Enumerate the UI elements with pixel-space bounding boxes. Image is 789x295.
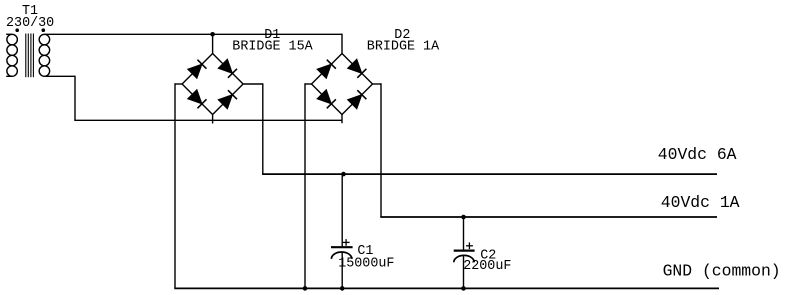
svg-text:40Vdc 6A: 40Vdc 6A [658, 145, 737, 164]
C1 positive plate [331, 246, 353, 248]
T1 core [25, 34, 27, 78]
wire: D2 bottom pin [341, 115, 343, 124]
junction dot: D2 negative on ground bus [303, 286, 308, 291]
D1 diode upper-right (anode top node, cathode right node) [217, 58, 233, 74]
C1 bottom lead to ground bus [341, 252, 343, 288]
wire: secondary bottom lead right [44, 75, 75, 77]
wire: D2 right pin stub [373, 83, 382, 85]
D2 diode lower-right (anode bottom node, cathode right node) [347, 94, 363, 110]
C1 top lead from 40Vdc 6A line [341, 174, 343, 247]
wire: D1 positive drop to 40Vdc 6A line [262, 83, 264, 174]
transformer T1 [6, 4, 54, 77]
T1 primary winding [7, 34, 18, 45]
capacitor C2 (electrolytic) [454, 215, 512, 291]
svg-text:2200uF: 2200uF [463, 259, 511, 274]
svg-text:GND (common): GND (common) [663, 262, 781, 281]
junction dot: D1 top pin on top AC net [210, 32, 215, 37]
svg-text:40Vdc 1A: 40Vdc 1A [661, 193, 740, 212]
C2 negative plate (curved) [454, 255, 474, 262]
C2 positive plate [454, 250, 475, 252]
junction dot: C2 bottom on ground bus [461, 286, 466, 291]
D2 diode upper-left (anode left node, cathode top node) [316, 63, 332, 79]
wire: bottom AC net to D2 bottom pin [74, 119, 342, 121]
T1 primary top lead [6, 33, 12, 35]
bridge rectifier D1 [182, 28, 314, 115]
junction dot: C2 top on 40Vdc 1A line [461, 215, 466, 220]
wire: D1 negative drop to ground bus [174, 83, 176, 288]
junction dot: C1 bottom on ground bus [340, 286, 345, 291]
wire: D2 left pin stub [305, 83, 312, 85]
D1 diode lower-left (anode left node, cathode bottom node) [187, 89, 203, 105]
wire: secondary top lead to D2 top corner (top AC net) [44, 33, 342, 35]
bridge rectifier D2 [312, 28, 441, 115]
C2 plus sign [466, 245, 473, 247]
T1 secondary winding [39, 34, 50, 45]
wire: 40Vdc 6A output line [262, 173, 717, 175]
wire: D2 negative drop to ground bus [304, 83, 306, 288]
wire: secondary bottom drop [74, 76, 76, 121]
wire: D2 positive drop to 40Vdc 1A line [380, 83, 382, 217]
svg-text:BRIDGE 1A: BRIDGE 1A [367, 39, 440, 54]
wire: 40Vdc 1A output line [380, 216, 717, 218]
D2 diode lower-left (anode left node, cathode bottom node) [316, 89, 332, 105]
wire: D1 left pin stub [175, 83, 182, 85]
C2 bottom lead to ground bus [463, 256, 465, 289]
wire: D1 top pin [212, 34, 214, 53]
bridge D2 diamond outline [312, 54, 373, 115]
wire: D1 bottom pin crossing bottom AC net [212, 115, 214, 124]
D1 diode upper-left (anode left node, cathode top node) [187, 63, 203, 79]
wire: D1 right pin stub [243, 83, 263, 85]
capacitor C1 (electrolytic) [331, 172, 394, 291]
bridge D1 diamond outline [182, 54, 243, 115]
D1 diode lower-right (anode bottom node, cathode right node) [217, 94, 233, 110]
T1 phase dot primary [15, 28, 19, 32]
svg-text:BRIDGE 15A: BRIDGE 15A [232, 39, 313, 54]
C2 top lead from 40Vdc 1A line [463, 217, 465, 251]
D2 diode upper-right (anode top node, cathode right node) [347, 58, 363, 74]
wire: D2 top pin [341, 34, 343, 54]
T1 primary bottom lead [6, 75, 12, 77]
wire: ground bus GND (common) [174, 287, 719, 289]
T1 phase dot secondary [42, 28, 46, 32]
svg-text:230/30: 230/30 [6, 16, 54, 31]
junction dot: C1 top on 40Vdc 6A line [341, 172, 346, 177]
C1 plus sign [343, 241, 350, 243]
C1 negative plate (curved) [331, 252, 351, 259]
svg-text:15000uF: 15000uF [338, 256, 394, 271]
